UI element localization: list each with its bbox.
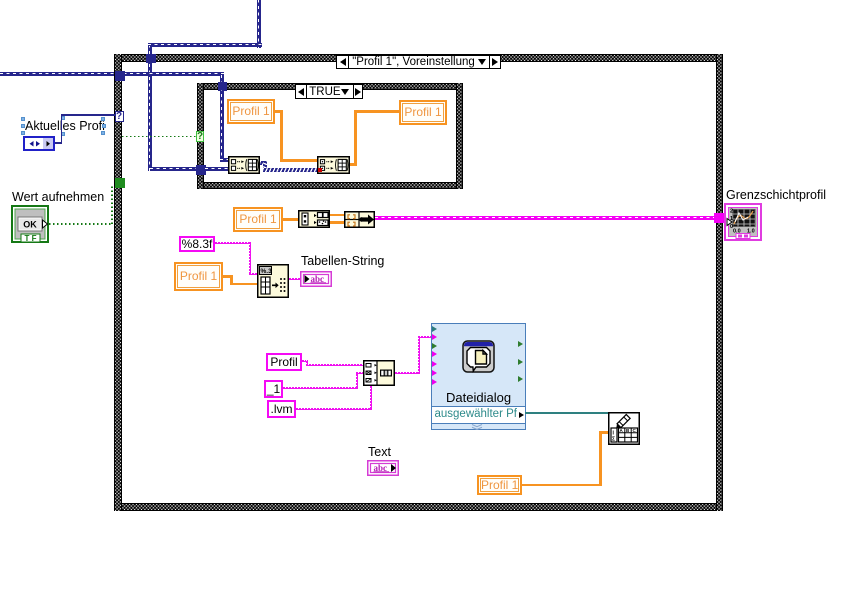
label: Wert aufnehmen	[12, 190, 104, 204]
wire: 2D-array upper run into TRUE case	[220, 75, 224, 91]
selector ? blue on outer border	[115, 111, 124, 122]
node: build array / convert	[344, 211, 375, 228]
wire: green dotted from OK	[49, 223, 112, 225]
node: replace array subset #1	[228, 156, 260, 174]
constant: Profil 1 (bottom)	[477, 475, 522, 495]
label: Tabellen-String	[301, 254, 384, 268]
svg-text:abc: abc	[374, 462, 388, 472]
svg-text:OK: OK	[23, 220, 37, 230]
express icon	[462, 340, 495, 373]
tunnel: outer top border	[146, 54, 156, 63]
svg-text:2: 2	[730, 208, 733, 214]
coercion dot red	[318, 168, 322, 172]
constant: _1	[264, 380, 283, 398]
wire: pink .lvm to concat	[296, 408, 372, 410]
wires: orange pair	[330, 214, 344, 217]
wire: navy thin from ring to selector	[55, 142, 62, 144]
label: Grenzschichtprofil	[726, 188, 826, 202]
indicator: Grenzschichtprofil graph	[724, 203, 762, 241]
selection handles	[21, 117, 25, 121]
outer case selector label	[336, 55, 501, 69]
label: Aktuelles Profi	[25, 119, 105, 133]
wire: pink out	[289, 278, 301, 280]
tunnel: TRUE left border	[196, 165, 206, 175]
wire: 2D-array down into outer case	[148, 46, 152, 171]
wire: pink _1 to concat	[283, 387, 358, 389]
wire: 1D-array striped between nodes	[260, 161, 267, 165]
svg-text:Σ: Σ	[612, 436, 615, 442]
constant: %8.3f	[179, 236, 215, 252]
constant: Profil 1 (TRUE right)	[399, 100, 447, 125]
label: Text	[368, 445, 391, 459]
selector ? green on TRUE border	[196, 131, 204, 142]
wire: green dotted inside to TRUE selector	[122, 136, 196, 138]
TRUE case selector label	[295, 84, 363, 99]
outer case structure border	[114, 54, 723, 62]
wire: teal path	[525, 412, 608, 414]
wire: orange from Profil1 left	[275, 110, 283, 113]
constant: Profil	[266, 353, 302, 371]
express input arrows	[432, 326, 437, 332]
svg-text:T F: T F	[25, 234, 37, 243]
wire: 2D-array horizontal from left edge	[0, 72, 224, 76]
svg-text:abc: abc	[311, 274, 325, 284]
tunnel: TRUE top border	[218, 82, 227, 91]
wire: 2D-array inside TRUE case	[220, 90, 224, 162]
node: index array	[298, 210, 330, 228]
chevron	[471, 424, 483, 430]
node: write to spreadsheet file	[608, 412, 640, 445]
constant: Profil 1 (row3)	[174, 262, 223, 291]
control terminal: Aktuelles Profi (ring)	[23, 136, 55, 151]
wire: pink from %8.3f	[215, 242, 251, 244]
wire: 2D-array vertical from top edge	[257, 0, 261, 48]
tunnel: green on outer border	[115, 178, 125, 188]
control: Text abc	[367, 460, 399, 476]
tunnel: outer left border	[115, 71, 125, 81]
wire: magenta array to graph	[375, 216, 715, 220]
wire: 2D-array inside outer case, left column	[150, 167, 206, 171]
express VI: Dateidialog	[431, 323, 526, 430]
constant: Profil 1 (TRUE left)	[227, 99, 275, 124]
tunnel: magenta	[714, 213, 724, 223]
indicator: Tabellen-String abc	[300, 271, 332, 287]
node: replace array subset #2	[317, 156, 350, 174]
wire: pink Profil to concat	[302, 360, 308, 362]
constant: Profil 1 (row2)	[233, 207, 283, 232]
express output arrows	[518, 341, 523, 347]
svg-text:%.3: %.3	[261, 268, 273, 275]
wire: orange to node5	[223, 275, 233, 278]
node: concatenate strings	[363, 360, 395, 386]
node: array to spreadsheet string	[257, 264, 289, 298]
wire: 2D-array horizontal upper	[148, 43, 262, 47]
wire: orange to index node	[283, 218, 298, 221]
inner TRUE case border	[197, 83, 463, 90]
control terminal: OK button	[11, 205, 49, 243]
wire: pink concat out to express	[395, 372, 420, 374]
wire: orange node2 to Profil1 right	[350, 163, 357, 166]
wire: orange bottom to write node	[522, 484, 601, 487]
constant: .lvm	[267, 400, 296, 418]
